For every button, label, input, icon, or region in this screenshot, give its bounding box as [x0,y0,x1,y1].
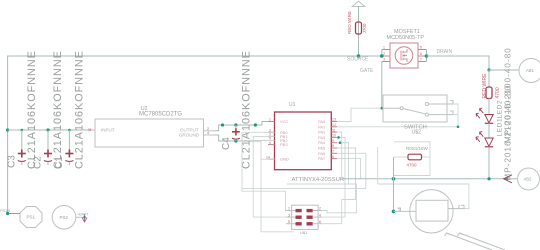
U1 value label [292,177,345,183]
pad PS2 circle [52,206,76,230]
buzzer right pin [448,205,465,209]
wire PB2 down [242,140,275,142]
svg-text:CL21A106KOFNNNE: CL21A106KOFNNNE [26,50,38,169]
svg-text:6: 6 [420,52,422,56]
svg-text:4: 4 [207,131,209,135]
svg-text:6: 6 [319,220,321,224]
wire ground vertical [261,141,294,232]
svg-text:U$1: U$1 [300,230,308,235]
svg-text:GND: GND [280,157,289,162]
wire buzzer left [394,210,397,212]
wire PB1 to ISP [253,136,291,217]
wire PA0 to switch common [337,108,383,121]
U1 right pin stubs [331,118,337,159]
svg-text:DRAIN: DRAIN [437,49,453,55]
node led rail [487,177,490,180]
node mosfet drain junction [425,54,429,58]
svg-text:LED1: LED1 [497,118,504,137]
label DRAIN [437,49,453,55]
svg-text:1: 1 [383,46,385,50]
IC U1 ATTINYX4 [275,102,332,170]
wire v377 [377,147,379,184]
svg-text:GROUND: GROUND [179,132,200,137]
wire PA2 down to rail [337,132,342,179]
wire drain down to R [488,70,490,87]
node rail179 resistor junction [392,177,396,181]
wire resistor drop [393,157,395,211]
svg-text:PA5: PA5 [318,146,326,151]
wire PA7 [337,159,361,179]
svg-text:GATE: GATE [360,68,374,74]
svg-text:1: 1 [288,207,290,211]
svg-text:MCD50N05-TP: MCD50N05-TP [387,35,425,41]
wire input rail to U2 [8,129,90,131]
svg-text:5: 5 [420,46,422,50]
node pa4 [339,141,342,144]
capacitor C3 [7,50,39,169]
svg-text:4: 4 [319,213,321,217]
node cap C1 junction [68,129,71,132]
svg-text:13: 13 [332,118,336,122]
node source-left-junction [6,128,9,131]
connector ISP header U$1 [286,205,322,235]
svg-text:5: 5 [288,220,290,224]
buzzer SG1 [410,190,453,233]
node battery source junction [357,54,361,58]
supply arrow to AB2 [504,175,513,183]
wire grey box top [394,142,430,157]
capacitor C2 [33,50,64,169]
wire arrow to AB2 [507,178,518,180]
svg-text:8: 8 [332,144,334,148]
pad PS1 octagon [20,207,42,228]
node gate switch junction [381,107,384,110]
LED value labels [504,47,513,180]
svg-text:C4: C4 [221,137,232,150]
fuse F1 RED WIRE [347,11,367,34]
svg-text:11: 11 [332,128,336,132]
wire DRAIN net [427,56,490,70]
label SOURCE [347,57,369,63]
U1 left pin stubs [266,118,275,160]
wire grey box bottom [394,157,430,176]
svg-text:VCC: VCC [280,119,289,124]
wire U2 GROUND down and right [215,135,261,141]
svg-text:3: 3 [383,58,385,62]
svg-text:CL21A106KOFNNNE: CL21A106KOFNNNE [74,50,86,169]
wire drain to AB1 [489,69,519,71]
wire resistor right lead [422,156,431,158]
svg-text:C1: C1 [54,156,65,169]
svg-text:MP-2016-2100-40-80: MP-2016-2100-40-80 [504,85,513,181]
node pa3 [337,136,340,139]
wire U2 OUTPUT to U1 VCC [215,122,268,131]
svg-text:PB3: PB3 [280,142,288,147]
pad AB1 [519,59,540,83]
node ps1 junction [6,212,9,215]
node output junction 2 [254,123,257,126]
wire ISP right pads up [287,184,357,213]
svg-text:10: 10 [332,134,336,138]
svg-text:LED2: LED2 [497,100,504,119]
wire LED2 down to rail [488,147,490,179]
capacitor C1 [54,50,86,169]
svg-text:2: 2 [319,207,321,211]
wire LED1 to LED2 [488,123,490,138]
wire R to LED1 [488,99,490,115]
node output junction 1 [221,123,224,126]
svg-text:C3: C3 [7,155,18,168]
pin ps2 right stub and +BATT arrow [76,213,90,223]
svg-text:U$2: U$2 [412,130,422,136]
wire PA5 down [337,148,356,200]
MOSFET left pins [382,46,390,62]
wire v430 [453,114,458,116]
svg-text:SOURCE: SOURCE [347,57,369,63]
wire ISP right mid [322,216,345,218]
wire PA3 down [337,137,345,217]
svg-text:RED WIRE: RED WIRE [482,73,488,99]
svg-text:2: 2 [458,205,460,209]
svg-text:4: 4 [269,141,271,145]
pin ps1 stub [0,209,20,214]
wire PA4 down [337,143,349,184]
node cap C2 junction [46,128,49,131]
wire PB0 to ISP [242,132,292,210]
svg-text:PS2: PS2 [60,215,69,220]
svg-text:4700: 4700 [495,87,501,98]
svg-text:MC7805CD2TG: MC7805CD2TG [139,112,182,118]
op-amp U2 voltage regulator MC7805CD2TG [89,106,216,147]
buzzer pointer lines [445,233,506,250]
svg-text:PA6: PA6 [318,151,326,156]
svg-text:1: 1 [398,208,400,212]
wire gate down to switch [381,62,383,109]
svg-text:PA3: PA3 [318,135,326,140]
node switch pa1 [457,126,460,129]
pad AB2 [518,168,540,190]
svg-text:7: 7 [332,150,334,154]
wire switch outputs [453,104,458,127]
wire GND net down [261,158,275,160]
resistor R0S 4700 [406,146,429,168]
svg-text:9: 9 [332,139,334,143]
svg-text:C2: C2 [33,156,44,169]
svg-text:PS1: PS1 [27,215,36,220]
node ground C4 bottom [234,139,237,142]
LED LED1 [476,108,493,123]
LED name labels [497,100,504,137]
svg-text:7: 7 [420,58,422,62]
node buzzer left junction [392,210,396,214]
svg-text:AB2: AB2 [524,177,533,182]
svg-text:PA4: PA4 [318,140,326,145]
buzzer left pin [397,208,416,212]
wire ISP right bottom [322,200,342,224]
switch U$2 [383,95,453,136]
node mosfet source junction [380,54,384,58]
svg-text:R0S1/16W: R0S1/16W [406,146,429,151]
svg-text:PA1: PA1 [318,124,326,129]
wire SOURCE rail top-left [8,56,382,214]
svg-text:3: 3 [288,213,290,217]
svg-text:PA2: PA2 [318,130,326,135]
svg-text:6: 6 [332,155,334,159]
wire PA1 long [337,126,458,128]
wire rail y184 [378,184,469,209]
node output junction C4 top [234,123,237,126]
power +BATT triangle [352,1,365,6]
svg-text:AB1: AB1 [526,68,535,73]
svg-text:INPUT: INPUT [101,128,115,133]
svg-text:PS1B: PS1B [0,209,10,213]
MOSFET right pins [418,46,427,62]
node drain branch [487,68,490,71]
label GATE [360,68,374,74]
wire battery drop [358,7,360,57]
svg-text:CL21A106KOFNNNE: CL21A106KOFNNNE [52,50,64,169]
svg-text:PA7: PA7 [318,156,326,161]
LED LED2 [476,132,493,147]
node cap C3 junction [21,129,24,132]
svg-text:RED WIRE: RED WIRE [347,11,352,34]
svg-text:12: 12 [332,123,336,127]
transistor MOSFET1 MCD50N05-TP [387,29,425,68]
svg-text:4700: 4700 [407,163,418,168]
wire rail y179 [342,178,507,180]
svg-text:ATTINYX4-20SSUR: ATTINYX4-20SSUR [292,177,345,183]
svg-text:J700: J700 [362,23,367,33]
svg-text:U1: U1 [289,102,296,108]
capacitor C4 [221,50,252,169]
svg-text:+BATT: +BATT [77,213,89,217]
wire PA6 down [242,153,366,188]
svg-text:1: 1 [269,118,271,122]
wire resistor left lead [394,156,409,158]
svg-text:PA0: PA0 [318,119,326,124]
resistor R2 led series [482,73,501,99]
